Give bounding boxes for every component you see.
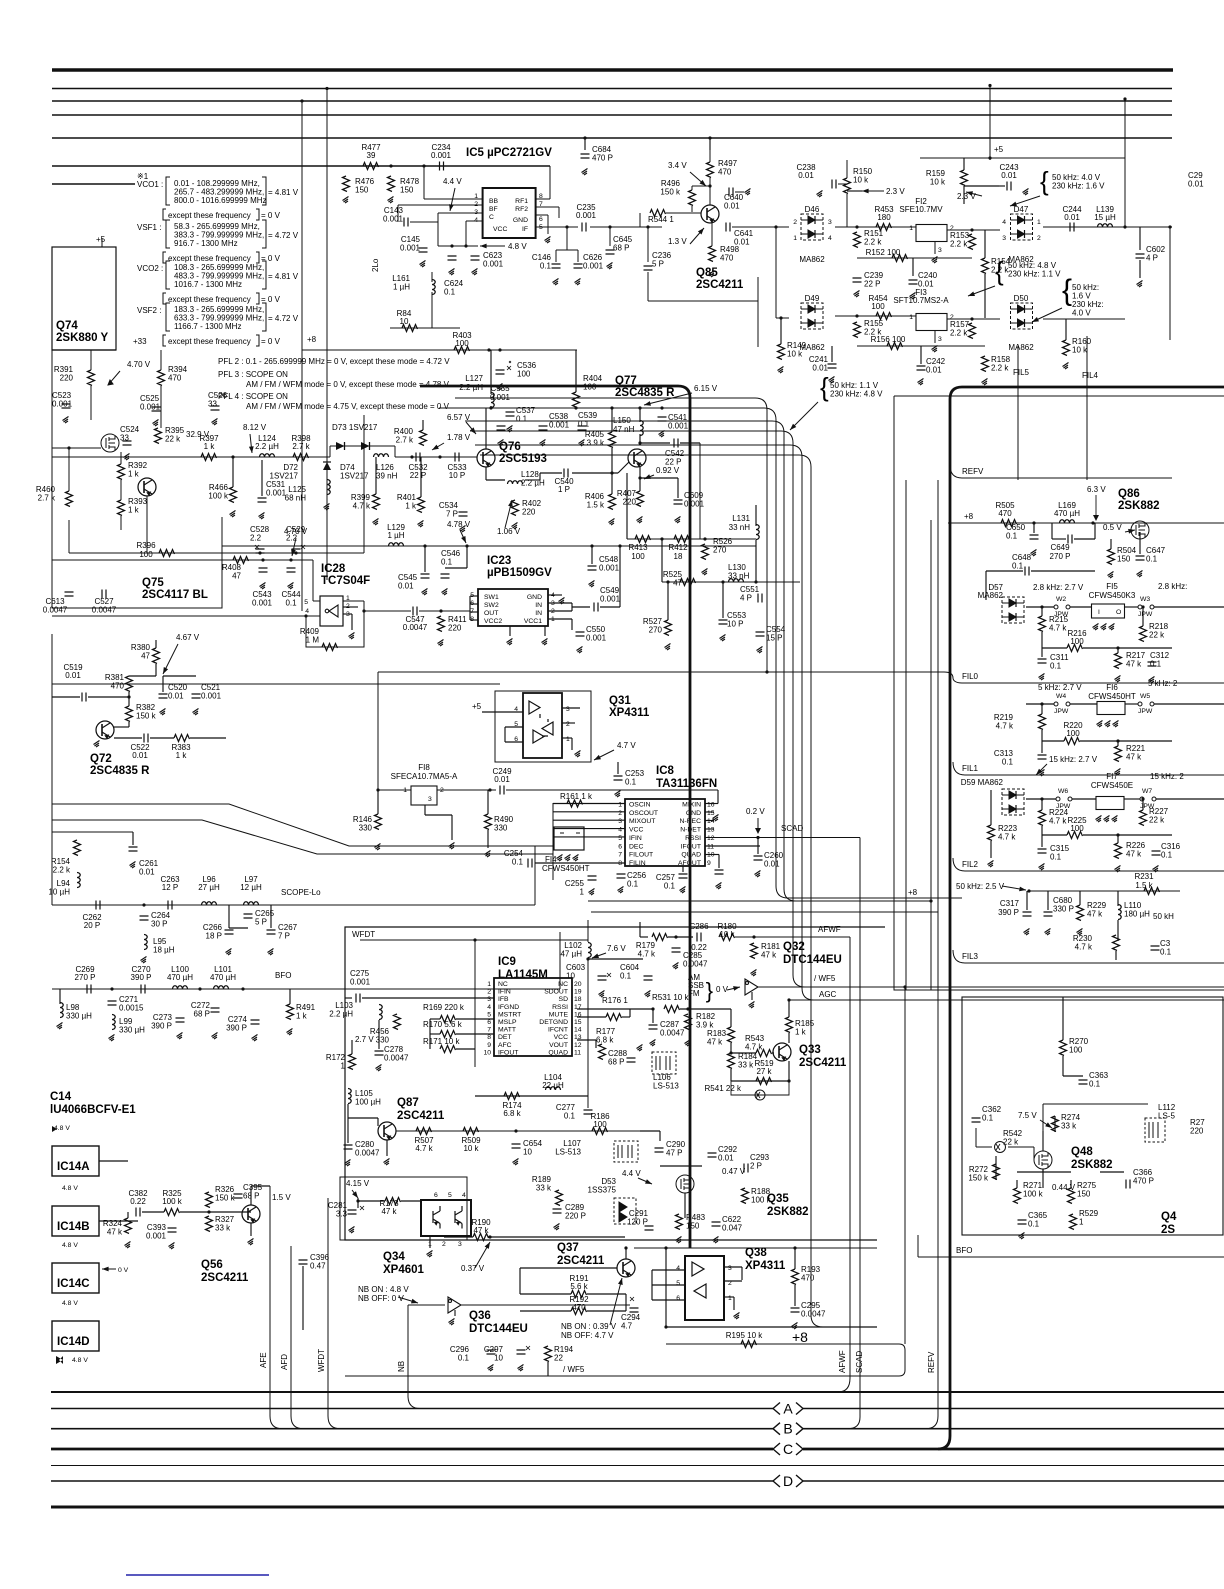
svg-text:FIL3: FIL3: [962, 952, 979, 961]
svg-text:= 4.72 V: = 4.72 V: [268, 314, 299, 323]
svg-text:3: 3: [428, 796, 432, 803]
wire +8 feed: [588, 900, 931, 902]
svg-text:REFV: REFV: [927, 1351, 936, 1373]
svg-text:NC: NC: [558, 981, 568, 988]
wire NB vertical: [408, 1305, 420, 1409]
svg-text:R1851 k: R1851 k: [795, 1019, 815, 1037]
wire emitter row: [731, 1080, 789, 1082]
capacitor C624: [448, 256, 457, 260]
wire: [555, 227, 557, 262]
wire: [544, 626, 546, 636]
capacitor C272: [211, 1008, 220, 1012]
wire: [214, 989, 216, 1006]
svg-text:IC14D: IC14D: [57, 1336, 90, 1348]
capacitor C640: [729, 188, 733, 197]
ground: [252, 1035, 258, 1042]
svg-text:Q852SC4211: Q852SC4211: [696, 267, 744, 291]
wire: [377, 790, 379, 814]
jumper W7: [1140, 797, 1156, 801]
arrow to D47: [1010, 196, 1040, 206]
capacitor C254: [528, 859, 532, 868]
svg-text:PFL 4 : SCOPE ON: PFL 4 : SCOPE ON: [218, 392, 288, 401]
arrow 3.4V: [690, 172, 706, 186]
wire: [788, 1000, 790, 1017]
svg-text:VCO2 :: VCO2 :: [137, 264, 163, 273]
wire: [1074, 538, 1095, 540]
svg-text:IN: IN: [535, 610, 542, 617]
svg-text:GND: GND: [686, 810, 701, 817]
ground: [518, 1365, 524, 1372]
svg-text:R27433 k: R27433 k: [1061, 1113, 1081, 1131]
svg-text:NB OFF: 4.7 V: NB OFF: 4.7 V: [561, 1331, 614, 1340]
wire: [591, 546, 593, 564]
wire drop x302: [301, 101, 303, 611]
wire: [146, 496, 148, 553]
resistor R393: [118, 500, 125, 516]
svg-text:3: 3: [938, 336, 942, 343]
resistor R381: [126, 676, 133, 692]
svg-text:FI6CFWS450HT: FI6CFWS450HT: [1088, 683, 1136, 701]
jumper W4: [1054, 702, 1070, 706]
wire: [730, 1009, 732, 1027]
wire: [709, 138, 711, 150]
wire vco out row: [52, 456, 330, 458]
inverter IC28: [325, 605, 338, 617]
svg-text:2: 2: [1037, 235, 1041, 242]
svg-text:R47739: R47739: [361, 143, 381, 160]
capacitor C313: [1038, 755, 1047, 759]
svg-text:4.78 V: 4.78 V: [447, 520, 471, 529]
wire: [1042, 647, 1067, 649]
wire: [587, 1310, 626, 1312]
wire NB in: [408, 1304, 445, 1306]
wire: [425, 814, 452, 816]
svg-text:AFD: AFD: [280, 1354, 289, 1370]
capacitor C295: [791, 1308, 800, 1312]
wire: [1139, 532, 1141, 554]
capacitor C269: [87, 985, 91, 994]
svg-text:R22647 k: R22647 k: [1126, 841, 1146, 859]
ground: [442, 589, 448, 596]
capacitor C521: [192, 694, 201, 698]
svg-text:R192470: R192470: [569, 1295, 589, 1312]
resistor R398: [293, 454, 309, 461]
wire: [581, 408, 583, 424]
arrow 6.57V: [466, 422, 476, 434]
wire: [470, 619, 478, 621]
resistor R453: [876, 224, 892, 231]
svg-text:IFIN: IFIN: [498, 989, 511, 996]
svg-text:C2600.01: C2600.01: [764, 851, 784, 869]
svg-text:0.92 V: 0.92 V: [656, 466, 680, 475]
resistor R155: [854, 322, 861, 338]
svg-text:W7: W7: [1142, 788, 1152, 795]
wire: [423, 166, 425, 199]
FET: [1034, 1151, 1052, 1169]
svg-text:Q562SC4211: Q562SC4211: [201, 1259, 249, 1284]
ground: [497, 384, 503, 391]
wire net y912: [591, 911, 938, 913]
wire: [1094, 545, 1096, 571]
svg-text:C2530.1: C2530.1: [625, 769, 645, 787]
wire: [1094, 523, 1096, 539]
inductor L94: [77, 873, 80, 888]
capacitor C553: [719, 620, 728, 624]
resistor R460: [66, 491, 73, 507]
svg-text:R478150: R478150: [400, 177, 420, 195]
wire: [794, 1285, 796, 1306]
filter FI6: [1097, 702, 1125, 715]
resistor R180: [719, 934, 735, 941]
svg-text:DET: DET: [498, 1034, 512, 1041]
arrow 4.8V: [480, 245, 505, 247]
wire: [68, 448, 70, 478]
capacitor C242: [917, 366, 926, 370]
FET: [101, 434, 119, 452]
svg-text:0.2 V: 0.2 V: [746, 807, 765, 816]
wire: [534, 862, 554, 864]
wire: [96, 736, 98, 738]
svg-text:O: O: [1116, 609, 1121, 616]
wire: [431, 272, 433, 282]
capacitor C143: [404, 218, 408, 227]
wire pin8: [536, 198, 550, 200]
box Q31 XP4311: [523, 693, 562, 758]
wire: [575, 350, 577, 392]
capacitor C255: [588, 876, 597, 880]
resistor R399: [373, 494, 380, 510]
svg-text:C3160.1: C3160.1: [1161, 842, 1181, 860]
wire /WF5 line: [345, 1375, 899, 1377]
resistor R218: [1140, 626, 1147, 642]
svg-text:IC28TC7S04F: IC28TC7S04F: [321, 563, 370, 587]
svg-text:5: 5: [618, 835, 622, 842]
wire panel v931: [930, 520, 932, 990]
svg-text:D49: D49: [805, 294, 820, 303]
svg-text:2.8 kHz:: 2.8 kHz:: [1158, 582, 1187, 591]
resistor R215: [1039, 616, 1046, 632]
wire IC8 left pin row 1: [553, 803, 625, 805]
svg-text:L98330 µH: L98330 µH: [66, 1003, 92, 1021]
svg-text:VCC: VCC: [629, 827, 643, 834]
wire: [985, 571, 987, 600]
wire: [1042, 1169, 1044, 1188]
capacitor C270: [141, 985, 145, 994]
capacitor C623: [471, 256, 480, 260]
wire out row: [364, 610, 411, 612]
wire: [556, 249, 578, 251]
diode pair D47 MA862: [1011, 214, 1033, 240]
IC IC28 body: [320, 596, 343, 626]
wire ic14b out: [99, 1220, 138, 1222]
arrow 4.67V: [163, 644, 178, 674]
svg-text:R19047 k: R19047 k: [471, 1218, 491, 1235]
svg-text:C3620.1: C3620.1: [982, 1105, 1002, 1123]
capacitor C257b: [715, 870, 724, 874]
svg-text:Q332SC4211: Q332SC4211: [799, 1044, 847, 1069]
wire: [680, 1008, 731, 1010]
wire: [824, 183, 830, 185]
wire: [520, 1310, 571, 1312]
svg-text:1: 1: [487, 981, 491, 988]
wire: [1072, 798, 1096, 800]
svg-text:C2655 P: C2655 P: [255, 909, 275, 927]
wire right edge: [757, 277, 759, 347]
wire fan f5: [470, 431, 805, 987]
ground: [565, 855, 571, 862]
resistor R504: [1108, 549, 1115, 565]
svg-text:MA862: MA862: [1008, 343, 1034, 352]
ground: [1101, 624, 1107, 631]
svg-text:NB ON : 4.8 V: NB ON : 4.8 V: [358, 1285, 409, 1294]
bracket VSF2 :: [166, 303, 170, 331]
node A: [773, 1403, 803, 1415]
ground: [349, 633, 355, 640]
wire: [114, 737, 142, 739]
ground: [582, 169, 588, 176]
svg-text:R169 220 k: R169 220 k: [423, 1003, 465, 1012]
wire 4.8V node: [438, 245, 478, 247]
resistor R152: [892, 255, 908, 262]
wire: [132, 832, 134, 845]
wire: [1156, 798, 1224, 800]
svg-text:R39522 k: R39522 k: [165, 426, 185, 444]
capacitor C542: [674, 439, 678, 448]
capacitor C294: [630, 1308, 639, 1312]
svg-text:MIXIN: MIXIN: [682, 802, 701, 809]
resistor R525: [680, 579, 696, 586]
capacitor C531: [258, 498, 267, 502]
svg-text:D50: D50: [1014, 294, 1029, 303]
wire: [575, 407, 577, 409]
wire: [150, 737, 174, 739]
ground: [472, 269, 478, 276]
svg-text:R271100 k: R271100 k: [1023, 1181, 1044, 1199]
capacitor C262: [96, 901, 100, 910]
wire: [358, 1200, 385, 1202]
resistor R275: [1068, 1188, 1075, 1204]
svg-text:C5430.001: C5430.001: [252, 590, 273, 608]
svg-text:L107LS-513: L107LS-513: [555, 1139, 581, 1157]
svg-text:1: 1: [909, 225, 913, 232]
svg-text:R152 100: R152 100: [866, 248, 901, 257]
svg-text:L101470 µH: L101470 µH: [210, 965, 236, 982]
wire R409 loop: [306, 611, 364, 647]
ground: [1019, 1233, 1025, 1240]
svg-text:2: 2: [566, 721, 570, 728]
arrow 0V ic14: [102, 1268, 116, 1270]
wire fan f4: [465, 421, 796, 901]
svg-text:SD: SD: [559, 996, 569, 1003]
wire SCOPE row: [52, 904, 535, 906]
wire bottom bus C: [51, 1448, 773, 1451]
svg-text:R161 1 k: R161 1 k: [560, 792, 593, 801]
wire IFIN row: [362, 997, 494, 999]
wire: [430, 1033, 440, 1035]
resistor R154: [982, 258, 989, 274]
wire: [1041, 826, 1043, 835]
ground: [932, 346, 938, 353]
ground: [673, 963, 679, 970]
svg-text:7: 7: [618, 852, 622, 859]
resistor R406: [609, 494, 616, 510]
svg-text:4.15 V: 4.15 V: [346, 1179, 370, 1188]
svg-text:R50910 k: R50910 k: [461, 1136, 481, 1153]
svg-text:= 0 V: = 0 V: [261, 254, 281, 263]
svg-text:Q482SK882: Q482SK882: [1071, 1146, 1113, 1171]
wire: [735, 191, 744, 193]
bracket except: [163, 209, 166, 220]
wire: [1042, 1131, 1044, 1151]
wire row2 out: [1043, 318, 1125, 320]
ground: [702, 569, 708, 576]
inductor L139: [1098, 224, 1113, 227]
capacitor C395: [234, 1194, 243, 1198]
svg-text:AM / FM / WFM mode = 0 V, exce: AM / FM / WFM mode = 0 V, except these m…: [246, 380, 450, 389]
svg-text:VOUT: VOUT: [549, 1042, 568, 1049]
resistor R519: [756, 1078, 772, 1085]
wire IF out2: [590, 226, 662, 228]
svg-text:WFDT: WFDT: [352, 930, 375, 939]
wire: [999, 185, 1005, 187]
wire: [465, 221, 467, 246]
wire IC8 left pin row 5: [553, 836, 625, 838]
wire R156: [857, 345, 985, 347]
svg-text:C2540.1: C2540.1: [504, 849, 524, 867]
capacitor C315: [1038, 849, 1047, 853]
svg-text:C3820.22: C3820.22: [128, 1189, 148, 1206]
svg-text:FI4: FI4: [545, 855, 557, 864]
svg-text:R170 5.6 k: R170 5.6 k: [423, 1020, 463, 1029]
svg-text:C5450.01: C5450.01: [398, 573, 418, 591]
svg-text:= 0 V: = 0 V: [261, 337, 281, 346]
wire: [1082, 1076, 1084, 1078]
svg-text:C2750.001: C2750.001: [350, 969, 371, 987]
capacitor C548: [588, 566, 597, 570]
svg-text:17: 17: [574, 1004, 582, 1011]
wire: [313, 600, 320, 602]
svg-text:R1572.2 k: R1572.2 k: [950, 320, 970, 338]
ground: [160, 709, 166, 716]
ground: [1096, 816, 1102, 823]
svg-text:C5210.001: C5210.001: [201, 683, 222, 701]
wire: [410, 221, 438, 223]
svg-text:2: 2: [487, 989, 491, 996]
wire: [190, 737, 226, 739]
svg-text:C3150.1: C3150.1: [1050, 844, 1070, 862]
wire: [663, 1008, 665, 1010]
wire: [1124, 798, 1140, 800]
svg-text:R40847: R40847: [222, 563, 242, 581]
svg-text:IC8TA31136FN: IC8TA31136FN: [656, 765, 717, 790]
wire: [920, 346, 922, 364]
wire left bus vert: [552, 803, 554, 880]
svg-text:C2870.0047: C2870.0047: [660, 1020, 685, 1038]
ground: [124, 454, 130, 461]
svg-text:18: 18: [574, 996, 582, 1003]
arrowhead: [108, 380, 113, 385]
svg-text:3: 3: [828, 219, 832, 226]
capacitor C3xx: [1151, 946, 1160, 950]
wire left edge: [51, 634, 53, 905]
resistor R544: [650, 210, 666, 217]
ground: [287, 1029, 293, 1036]
svg-text:50 kH: 50 kH: [1153, 912, 1174, 921]
bracket except: [163, 252, 166, 263]
svg-text:R21822 k: R21822 k: [1149, 622, 1169, 640]
wire: [1117, 741, 1119, 746]
resistor R542: [995, 1142, 1006, 1153]
resistor R192: [571, 1308, 587, 1315]
ground: [345, 1160, 351, 1167]
wire top bus 3: [52, 100, 1172, 102]
resistor R408: [233, 557, 249, 564]
svg-text:7.5 V: 7.5 V: [1018, 1111, 1037, 1120]
wire: [1117, 835, 1119, 843]
capacitor C533: [455, 453, 459, 462]
wire: [250, 1186, 252, 1205]
resistor R146: [375, 814, 382, 830]
arrow 7.6V: [592, 953, 606, 958]
ground: [637, 1045, 643, 1052]
svg-text:L100470 µH: L100470 µH: [167, 965, 193, 982]
capacitor C537: [497, 426, 506, 430]
svg-text:R531 10 k: R531 10 k: [652, 993, 689, 1002]
resistor R171: [440, 1046, 456, 1053]
svg-text:2.8 kHz: 2.7 V: 2.8 kHz: 2.7 V: [1033, 583, 1084, 592]
wire IC5 pin8 drop: [549, 166, 551, 199]
svg-text:0 V: 0 V: [118, 1267, 129, 1274]
wire: [143, 905, 145, 914]
resistor R181: [751, 943, 758, 959]
wire: [548, 618, 572, 620]
arrow fan: [790, 402, 818, 430]
wire: [1083, 647, 1172, 649]
svg-text:Q742SK880 Y: Q742SK880 Y: [56, 320, 109, 344]
wire: [539, 473, 541, 480]
wire top bus 2: [52, 88, 1172, 90]
inductor L105: [348, 1089, 351, 1104]
svg-text:C3630.1: C3630.1: [1089, 1071, 1109, 1089]
wire: [1154, 703, 1224, 705]
resistor R161: [567, 800, 583, 807]
svg-text:C23922 P: C23922 P: [864, 271, 884, 289]
svg-text:C2365 P: C2365 P: [652, 251, 672, 269]
box IC14A: [52, 1146, 99, 1176]
wire: [759, 602, 761, 630]
wire: [485, 467, 487, 480]
wire: [351, 614, 353, 630]
svg-text:R3831 k: R3831 k: [171, 743, 191, 760]
wire: [611, 448, 613, 473]
svg-text:C1460.1: C1460.1: [532, 253, 552, 271]
svg-text:C274390 P: C274390 P: [226, 1015, 247, 1033]
wire: [601, 959, 603, 974]
wire: [90, 350, 92, 370]
svg-text:C2570.1: C2570.1: [656, 873, 676, 891]
wire: [1031, 570, 1095, 572]
resistor R409: [322, 644, 338, 651]
wire: [964, 185, 999, 187]
wire /WF5: [758, 986, 1224, 988]
svg-text:C28868 P: C28868 P: [608, 1049, 628, 1067]
svg-text:R326150 k: R326150 k: [215, 1185, 236, 1203]
capacitor C274: [251, 1020, 260, 1024]
svg-text:3: 3: [487, 996, 491, 1003]
wire fan line1: [52, 804, 553, 846]
wire: [724, 1266, 742, 1268]
svg-text:C52433: C52433: [120, 425, 140, 443]
